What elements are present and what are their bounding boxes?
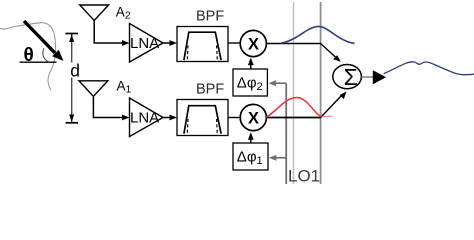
wire LNA to BPF upper — [163, 40, 177, 46]
svg-text:X: X — [248, 109, 259, 127]
svg-text:LNA: LNA — [130, 35, 159, 52]
dimension bottom tick — [66, 122, 79, 124]
dimension bottom arrowhead — [69, 115, 74, 123]
phase shifter P1 — [233, 143, 268, 170]
net LO1 feed vertical wire — [285, 83, 287, 184]
summer sigma — [333, 64, 362, 90]
incident signal arrow — [24, 21, 64, 61]
IF spectrum lower (red) — [267, 98, 320, 117]
amplifier LNA upper — [130, 24, 164, 63]
screen line right (gray vertical) — [320, 2, 322, 184]
antenna A2 — [80, 5, 130, 46]
angle arc — [43, 48, 49, 62]
wire mixer lower to screen — [266, 117, 321, 119]
svg-text:A2: A2 — [116, 5, 131, 22]
screen line left (light gray vertical) — [293, 2, 295, 184]
wire BPF to mixer upper — [228, 42, 240, 44]
antenna A1 — [79, 81, 130, 121]
output wire with arrowhead — [361, 70, 386, 84]
dimension line d (upper segment) — [71, 34, 73, 63]
dimension top tick — [66, 33, 79, 35]
svg-text:BPF: BPF — [196, 9, 224, 25]
amplifier LNA lower — [130, 98, 164, 137]
svg-text:A1: A1 — [117, 79, 132, 96]
filter BPF lower — [177, 82, 228, 136]
svg-text:BPF: BPF — [196, 82, 224, 98]
wire BPF to mixer lower — [228, 117, 240, 119]
svg-text:LNA: LNA — [130, 109, 159, 126]
IF spectrum lower red tail — [320, 116, 333, 117]
wire P1 to mixer lower — [248, 132, 254, 143]
IF spectrum upper (blue) — [281, 26, 355, 43]
dimension top arrowhead — [69, 35, 74, 43]
wire lower diagonal to summer — [321, 92, 347, 118]
wire LO1 branch to phase shifter P2 — [269, 80, 287, 86]
svg-text:Σ: Σ — [344, 64, 358, 90]
wire LNA to BPF lower — [163, 115, 177, 121]
svg-text:d: d — [70, 60, 80, 80]
svg-text:LO1: LO1 — [288, 166, 320, 184]
incident wavefront curve — [0, 23, 56, 91]
phase shifter P2 — [233, 69, 267, 96]
dimension line d (lower segment) — [71, 78, 73, 123]
wire mixer upper to screen — [266, 43, 321, 45]
mixer lower — [240, 104, 266, 130]
horizon reference line — [20, 61, 57, 63]
filter BPF upper — [177, 9, 228, 62]
wire upper diagonal to summer — [321, 44, 341, 62]
svg-text:X: X — [248, 35, 259, 53]
mixer upper — [240, 30, 266, 56]
output signal wave (blue) — [384, 62, 474, 75]
wire LO1 branch to phase shifter P1 — [269, 155, 286, 161]
wire P2 to mixer upper — [248, 58, 254, 69]
